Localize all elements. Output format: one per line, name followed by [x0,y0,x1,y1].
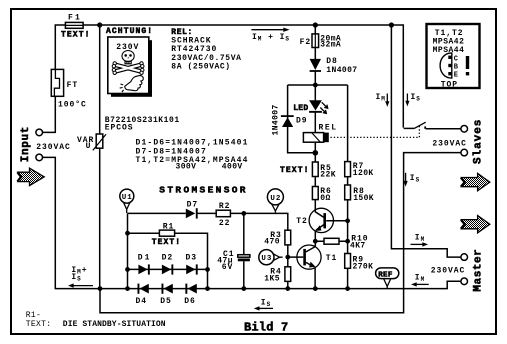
wire sensor left vertical [127,213,129,288]
diode D8 [310,59,321,72]
svg-text:Input: Input [20,126,32,162]
svg-text:U2: U2 [270,195,281,203]
terminal master lower [461,278,468,285]
svg-text:32mA: 32mA [320,41,341,50]
diode D6 [185,284,196,294]
wire C1 top lead [243,213,245,254]
svg-text:400V: 400V [222,163,243,172]
diode D7 [186,208,198,218]
varistor VAR [93,134,106,150]
wire relay box top [288,84,348,86]
svg-text:470: 470 [264,238,280,247]
wire R5 to R6 [314,177,316,187]
balloon U1 [120,189,134,213]
svg-text:230VAC: 230VAC [36,143,71,152]
svg-text:STROMSENSOR: STROMSENSOR [159,185,248,196]
svg-text:D3: D3 [186,253,198,262]
resistor R7 [345,162,351,177]
current label IM mid with down arrow [376,93,390,107]
svg-text:230VAC: 230VAC [432,140,467,149]
master arrow [462,216,490,233]
warning box with skull and hand [108,37,152,97]
svg-text:RT424730: RT424730 [171,45,217,54]
wire R6 to T2 collector [315,200,323,218]
wire T1 emitter to ground rail [306,262,315,288]
wire R5 node to R5 [314,153,316,162]
current label IM return with left arrow [411,273,429,286]
node junction dots [97,22,394,291]
balloon U3 [259,250,283,265]
wire R8 to T2 base node to R10 to R9 [347,200,349,254]
svg-text:U: U [86,142,92,151]
current label IM+IS bottom left with left arrow [68,266,93,288]
svg-text:TOP: TOP [441,80,458,89]
svg-text:IM + IS: IM + IS [252,33,290,43]
svg-text:ACHTUNG!: ACHTUNG! [106,27,153,36]
svg-text:6V: 6V [222,263,234,272]
svg-text:D8: D8 [326,57,338,66]
wire D1-D3 row [128,268,208,270]
svg-text:D1: D1 [138,253,152,262]
wire R3 to T1 base node [287,245,289,257]
diode D5 [162,284,173,294]
svg-text:R1-: R1- [26,311,41,320]
switch contact (relay contact) [404,122,461,129]
svg-text:D2: D2 [162,253,174,262]
svg-text:4K7: 4K7 [350,241,366,250]
resistor R10 [324,238,339,244]
svg-text:F2: F2 [300,38,312,47]
wire input terminal lower to ground rail [43,157,100,288]
wire FT bottom to input terminal upper [43,96,56,132]
slaves arrow [462,173,490,190]
relay REL coil [303,133,328,143]
wire varistor bottom to ground rail [99,148,101,288]
wire LED cathode to relay coil [314,112,316,133]
current label IM+IS top with arrow [251,28,290,43]
svg-text:0Ω: 0Ω [320,194,330,203]
svg-text:D4: D4 [136,297,148,306]
wire left bus F1 junction down to varistor [99,25,101,134]
svg-text:DIE STANDBY-SITUATION: DIE STANDBY-SITUATION [63,320,166,329]
wire R7 branch from box top [347,85,349,162]
resistor R5 [312,162,318,177]
svg-text:D7: D7 [187,201,199,210]
wire T2 emitter to R10 node [315,225,324,242]
wire top live from F1 to right bus corner [83,25,403,128]
wire R7 to R8 [347,177,349,185]
wire R1 row [128,233,208,288]
svg-text:LED: LED [293,104,308,113]
svg-text:TEXT:: TEXT: [26,320,52,329]
fuse F1 [65,22,83,28]
wire neutral return: rail to bottom run to slaves lower terminal [100,153,461,313]
svg-text:22: 22 [219,219,231,228]
wire I_M branch down from top wire to master corner [391,25,461,257]
svg-text:8A (250VAC): 8A (250VAC) [171,63,230,72]
transistor T1 [297,245,321,269]
svg-text:D6: D6 [184,297,196,306]
fuse F2 [312,34,319,48]
wire LED anode [314,85,316,100]
wire D9 branch [288,85,316,153]
svg-text:FT: FT [67,81,79,90]
wire relay coil to R5 node [314,142,316,153]
wire T1 collector [306,241,315,252]
svg-text:U1: U1 [122,194,133,202]
current label IS upper right with down arrow [405,93,421,106]
wire F2 to D8 [314,48,316,60]
svg-text:D5: D5 [160,297,172,306]
terminal slaves lower [461,149,468,156]
svg-text:Master: Master [473,249,485,292]
svg-text:REL:: REL: [171,28,193,37]
diode D2 [162,264,173,274]
resistor R4 [285,267,291,282]
svg-text:C: C [454,55,459,63]
svg-text:D1-D6=1N4007,1N5401: D1-D6=1N4007,1N5401 [136,139,249,148]
terminal slaves upper [461,126,468,133]
wire D8 to LED-relay box top [314,72,316,86]
svg-text:1N4007: 1N4007 [272,104,281,135]
resistor R8 [345,185,351,200]
wire sensor output: U1 node through D7 R2 to C1 node and R3 [128,213,288,230]
svg-text:300V: 300V [176,163,197,172]
thermal fuse FT [51,69,63,96]
resistor R2 [216,210,230,217]
balloon REF [376,268,399,289]
resistor R1 [159,230,174,236]
resistor R6 [312,187,318,200]
svg-text:230VAC: 230VAC [431,267,466,276]
wire R10 leads [315,240,347,242]
svg-text:1N4007: 1N4007 [326,66,357,75]
diode D9 [281,115,294,127]
wire C1 bottom lead [243,261,245,288]
svg-text:22K: 22K [320,171,336,180]
svg-text:1K5: 1K5 [264,274,280,283]
svg-text:150K: 150K [353,194,374,203]
input arrow [18,168,44,185]
svg-text:EPCOS: EPCOS [105,124,134,133]
svg-text:REF: REF [378,271,393,279]
T1,T2 pinout box [427,24,480,89]
terminal input upper [36,129,43,136]
svg-text:D9: D9 [296,117,308,126]
svg-text:Slaves: Slaves [473,119,485,164]
wire T2 base to R7 node [326,220,347,222]
resistor R3 [285,230,291,245]
diode D1 [138,264,149,274]
svg-text:D7-D8=1N4007: D7-D8=1N4007 [136,147,207,156]
svg-text:230VAC/0.75VA: 230VAC/0.75VA [171,54,241,63]
svg-text:R2: R2 [219,202,231,211]
capacitor C1 electrolytic [238,255,250,262]
svg-text:TEXT!: TEXT! [280,166,310,175]
resistor R9 [345,254,351,269]
current label IS bottom with left arrow [254,299,273,311]
svg-text:B: B [454,64,459,72]
wire D8 branch from top wire [314,25,316,34]
svg-text:120K: 120K [353,169,374,178]
terminal master upper [461,254,468,261]
svg-text:TEXT!: TEXT! [61,30,91,39]
wire ground rail [100,281,460,288]
wire R9 to ground rail [347,268,349,288]
wire T1 base node [288,256,304,258]
svg-text:REL: REL [319,124,338,133]
wire F1 left lead to FT top [55,25,65,69]
svg-text:T2: T2 [296,217,308,226]
current label IS mid right with down arrow [404,173,421,187]
current label IM to master with right arrow [411,233,429,246]
svg-text:270K: 270K [353,263,374,272]
svg-text:Bild 7: Bild 7 [244,321,288,335]
svg-text:F1: F1 [68,13,82,22]
dotted mechanical link relay to switch [331,125,420,138]
svg-text:R1: R1 [163,222,175,231]
wire R4 to ground rail [287,257,289,289]
diode D3 [186,264,198,274]
svg-text:U3: U3 [261,255,272,263]
diode D4 [138,284,149,294]
transistor T2 [309,208,333,232]
svg-text:E: E [454,71,459,79]
svg-text:100°C: 100°C [58,100,87,109]
balloon U2 [267,189,283,213]
svg-text:TEXT!: TEXT! [152,238,182,247]
svg-text:T1: T1 [326,254,338,263]
terminal input lower [36,154,43,161]
LED [309,100,328,113]
